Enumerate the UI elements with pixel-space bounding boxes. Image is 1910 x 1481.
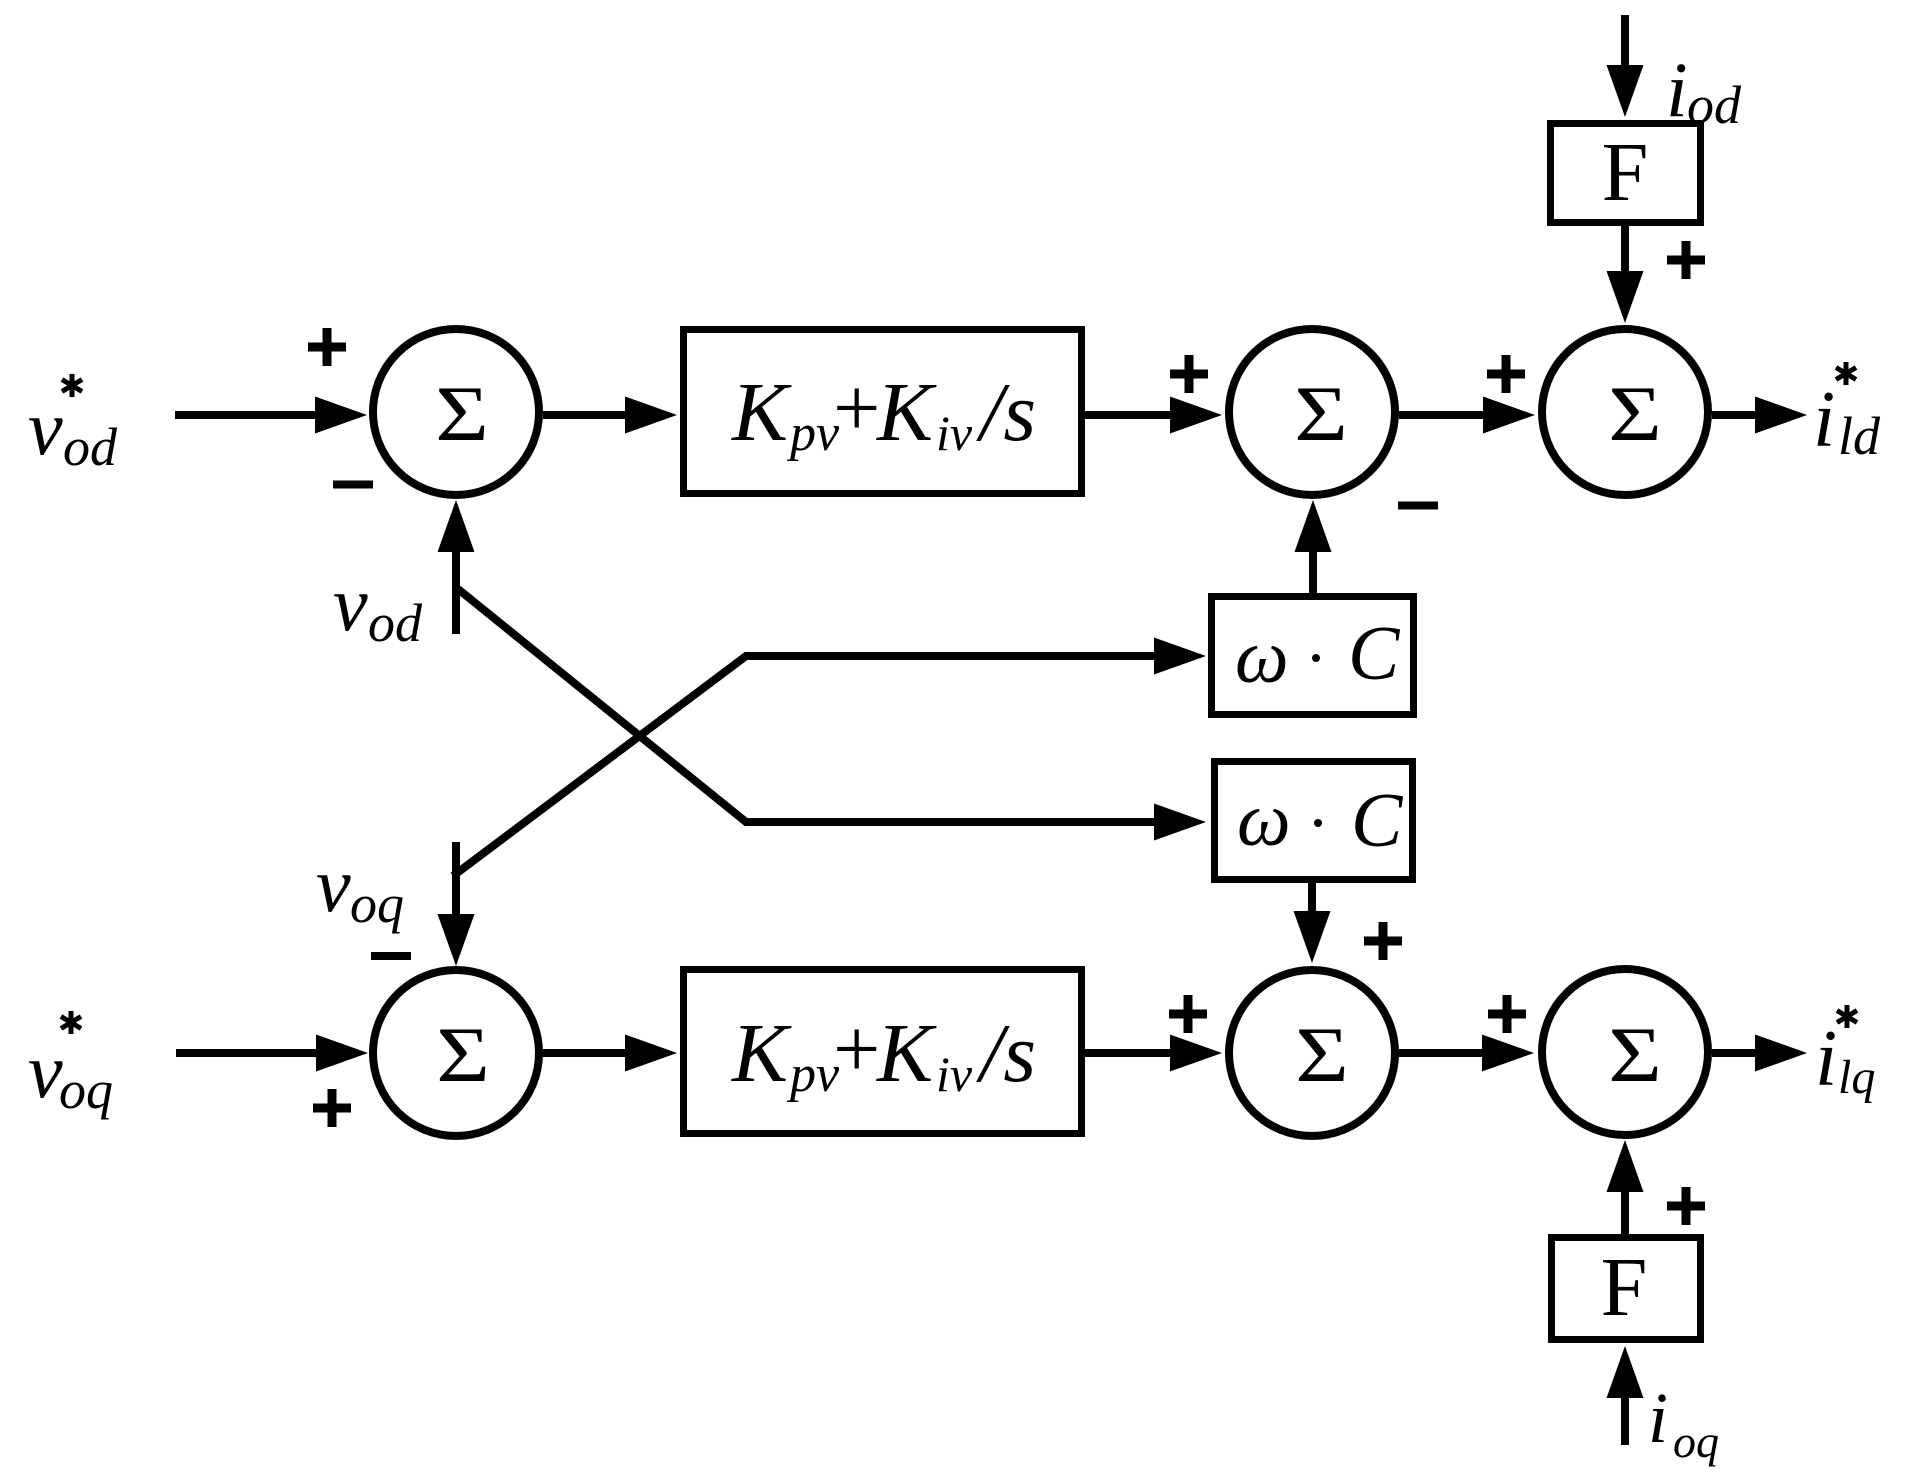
arrowhead into S1 bottom [438,500,475,552]
svg-text:oq: oq [1673,1416,1719,1467]
wire PI1 to S2 [1085,411,1177,419]
wire S1 to PI1 [543,411,632,419]
arrowhead into S3 [1483,397,1535,434]
arrowhead into S2 [1170,397,1222,434]
svg-text:pv: pv [786,1046,840,1103]
svg-text:oq: oq [350,874,404,934]
feedforward block F1 [1551,124,1701,223]
svg-text:+: + [833,1003,880,1096]
summing junction S5 [1229,970,1395,1136]
arrowhead into S4 [316,1035,368,1072]
wire F1 to S3 [1621,226,1629,280]
sign + at S5 top input [1364,922,1402,960]
wire WC2 to S5 [1308,883,1316,920]
svg-text:Σ: Σ [435,371,489,457]
sign + at S3 left input [1487,355,1525,393]
svg-text:v: v [28,1027,63,1114]
wire S6 to output i*lq [1712,1049,1760,1057]
arrowhead into summing junction S1 [315,397,367,434]
arrowhead into WC2 [1154,804,1206,841]
svg-text:i: i [1813,376,1835,464]
svg-text:iv: iv [936,405,973,461]
sign - at S1 bottom input [333,481,373,489]
wire input vod* [175,411,322,419]
arrowhead into S6 [1482,1035,1534,1072]
node label v*od [28,374,118,477]
svg-text:ld: ld [1838,406,1881,466]
svg-text:ω: ω [1237,778,1291,862]
svg-text:lq: lq [1838,1051,1875,1104]
node label ioq [1648,1378,1719,1467]
gain block PI1 Kpv+Kiv/s [684,330,1082,494]
sign - at S2 bottom input [1398,502,1438,510]
arrowhead into S5 top [1294,911,1331,963]
svg-text:v: v [316,841,351,928]
wire voq diagonal from upper coupling [453,656,1163,876]
sign + at S5 left input [1169,995,1207,1033]
arrowhead output i*ld [1755,397,1807,434]
coupling block WC2 w.C [1215,762,1413,880]
svg-text:K: K [731,1007,792,1100]
sign - at S4 top input [371,952,411,960]
wire ioq input [1621,1390,1629,1445]
arrowhead into S2 bottom [1295,500,1332,552]
feedforward block F2 [1552,1238,1701,1340]
svg-text:K: K [876,1007,937,1100]
arrowhead into F2 bottom [1607,1346,1644,1398]
node label iod [1666,46,1742,135]
wire S2 to S3 [1399,411,1490,419]
arrowhead into S4 top [438,914,475,966]
wire S3 to output i*ld [1712,411,1760,419]
gain block PI2 Kpv+Kiv/s [684,970,1082,1134]
summing junction S2 [1229,329,1395,495]
svg-text:Σ: Σ [1608,371,1662,457]
wire F2 to S6 [1621,1188,1629,1234]
wire S5 to S6 [1399,1049,1489,1057]
svg-text:/s: /s [976,1007,1036,1100]
sign + at S3 top input [1667,241,1705,279]
wire vod diagonal to lower coupling [458,589,1163,822]
arrowhead into PI1 [625,397,677,434]
arrowhead into S6 bottom [1607,1140,1644,1192]
svg-text:od: od [368,593,423,653]
svg-text:i: i [1666,46,1688,133]
svg-text:Σ: Σ [436,1012,490,1098]
arrowhead into WC1 [1154,638,1206,675]
svg-text:od: od [63,417,118,477]
svg-text:F: F [1602,126,1649,219]
wire input voq* [176,1049,322,1057]
arrowhead into S3 top [1607,271,1644,323]
svg-text:ω: ω [1235,615,1289,699]
arrowhead into PI2 [625,1035,677,1072]
sign + at S4 left input [313,1089,351,1127]
arrowhead into S5 [1170,1035,1222,1072]
arrowhead output i*lq [1755,1035,1807,1072]
svg-text:C: C [1351,777,1404,863]
svg-text:pv: pv [786,405,840,462]
summing junction S6 [1542,969,1708,1135]
svg-text:K: K [731,366,792,459]
svg-text:oq: oq [59,1060,113,1120]
coupling block WC1 w.C [1212,597,1414,715]
arrowhead into F1 [1607,65,1644,117]
sign + at S1 top input [308,328,346,366]
svg-text:+: + [833,362,880,455]
svg-text:Σ: Σ [1294,371,1348,457]
summing junction S1 [373,329,539,495]
sign + at S6 left input [1488,995,1526,1033]
svg-text:v: v [333,560,368,647]
summing junction S3 [1542,329,1708,495]
node label vod [333,560,423,653]
sign + at S6 bottom input [1667,1187,1705,1225]
wire vod vertical into S1 [452,548,460,634]
svg-text:Σ: Σ [1608,1012,1662,1098]
wire voq vertical into S4 [452,842,460,918]
svg-text:v: v [28,384,63,471]
summing junction S4 [373,970,539,1136]
wire S4 to PI2 [543,1049,632,1057]
node label v*oq [28,1011,113,1120]
wire iod input [1621,15,1629,74]
svg-text:F: F [1601,1241,1648,1334]
wire WC1 to S2 [1309,545,1317,596]
svg-text:i: i [1815,1015,1837,1103]
wire PI2 to S5 [1085,1049,1177,1057]
svg-text:/s: /s [976,366,1036,459]
svg-text:C: C [1348,610,1401,696]
node label voq [316,841,404,934]
svg-text:iv: iv [936,1046,973,1102]
node label i*ld [1813,362,1881,466]
svg-text:K: K [876,366,937,459]
sign + at S2 left input [1170,355,1208,393]
svg-text:i: i [1648,1378,1668,1458]
node label i*lq [1815,1005,1875,1104]
svg-text:Σ: Σ [1295,1012,1349,1098]
